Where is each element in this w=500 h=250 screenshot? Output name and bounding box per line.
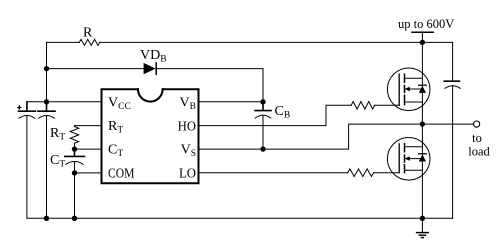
wire LO pin to lower gate bbox=[199, 172, 400, 174]
plus sign of C1 bbox=[18, 106, 21, 109]
diode VDB bbox=[144, 63, 156, 74]
wire main half-bridge vertical bbox=[421, 32, 423, 232]
junction: CT/COM node bbox=[72, 170, 77, 175]
junction: RT/CT node bbox=[72, 146, 77, 151]
svg-text:LO: LO bbox=[179, 167, 196, 182]
wire bootstrap diode branch bbox=[47, 69, 264, 102]
wire top rail (Vcc to HV bus) bbox=[47, 41, 453, 43]
capacitor C1 electrolytic (+ cap) bbox=[19, 102, 36, 111]
capacitor CT bbox=[65, 149, 85, 156]
wire HO pin to upper gate bbox=[199, 105, 400, 125]
to-load terminal circle bbox=[474, 121, 480, 127]
junction: HV bus node bbox=[420, 40, 425, 45]
wire VB pin to bootstrap node bbox=[199, 101, 264, 103]
svg-text:up to 600V: up to 600V bbox=[398, 17, 454, 31]
wire left rail vertical bbox=[46, 42, 48, 101]
junction: ground node bbox=[420, 216, 425, 221]
HV supply terminal bar bbox=[412, 31, 433, 33]
resistor RT bbox=[70, 127, 78, 150]
wire right bus-cap branch bbox=[452, 42, 454, 218]
capacitor C2 (parallel Vcc cap) bbox=[38, 102, 55, 111]
capacitor CB bbox=[255, 102, 271, 111]
wire CT pin bbox=[75, 148, 102, 150]
svg-text:to: to bbox=[472, 131, 482, 145]
transistor VT1 (upper MOSFET) bbox=[387, 68, 430, 111]
resistor R bbox=[79, 39, 99, 45]
svg-text:R: R bbox=[83, 26, 93, 41]
wire COM branch to ground rail bbox=[74, 173, 76, 218]
junction: VB bootstrap node bbox=[260, 99, 265, 104]
junction: Vcc node / filter cap bbox=[44, 99, 49, 104]
resistor lower gate bbox=[348, 169, 374, 177]
wire RT pin bbox=[75, 125, 102, 128]
wire COM pin bbox=[75, 172, 102, 174]
junction: left rail / diode branch bbox=[44, 66, 49, 71]
transistor VT2 (lower MOSFET) bbox=[387, 138, 430, 181]
junction: COM branch to ground rail bbox=[72, 216, 77, 221]
resistor upper gate bbox=[351, 102, 374, 110]
svg-text:HO: HO bbox=[178, 120, 196, 135]
junction: half-bridge midpoint node bbox=[420, 121, 425, 126]
svg-text:COM: COM bbox=[108, 167, 135, 182]
ground symbol bbox=[417, 232, 429, 234]
wire bottom ground rail bbox=[27, 217, 453, 219]
svg-text:load: load bbox=[468, 144, 490, 158]
junction: CB bottom on VS wire bbox=[260, 146, 265, 151]
capacitor bus C bbox=[444, 80, 459, 82]
IC DA1 body bbox=[102, 89, 199, 183]
junction: cap C2 to ground rail bbox=[44, 216, 49, 221]
wire Vcc pin to caps bbox=[27, 101, 102, 103]
wire VS pin to half-bridge midpoint bbox=[199, 124, 474, 149]
